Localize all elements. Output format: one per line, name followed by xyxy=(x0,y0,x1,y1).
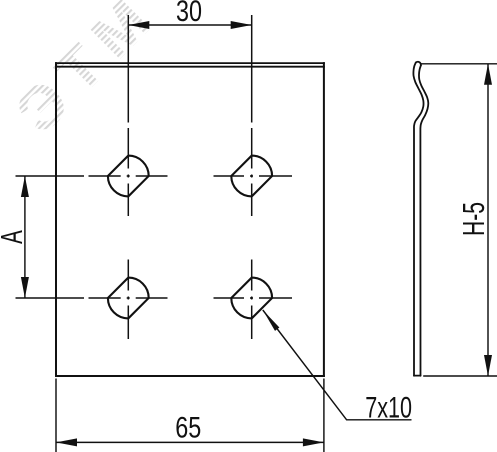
svg-text:30: 30 xyxy=(176,0,202,28)
svg-text:65: 65 xyxy=(175,411,201,444)
svg-text:A: A xyxy=(0,230,29,244)
svg-text:H-5: H-5 xyxy=(456,202,491,236)
svg-text:7x10: 7x10 xyxy=(365,390,412,424)
